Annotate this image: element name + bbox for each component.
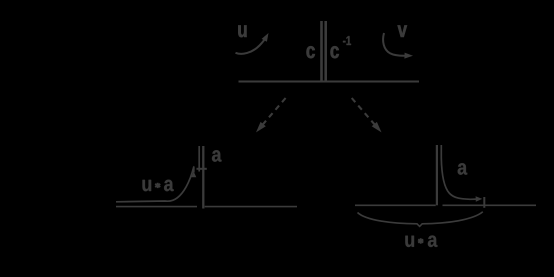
label c <box>307 46 315 58</box>
top horizontal line <box>239 81 420 83</box>
asterisk of u*a (bottom-right) <box>418 238 423 243</box>
curve u*a (bottom-right) <box>441 145 476 199</box>
dashed arrow left <box>262 98 286 126</box>
bottom-right horizontal line (right segment) <box>443 204 537 206</box>
curve c double vertical line (left bar) <box>320 21 323 81</box>
label u <box>238 25 246 37</box>
arrow v (curved) <box>383 33 406 56</box>
label a of u*a (bottom-right) <box>428 236 438 248</box>
curve u*a (bottom-left) <box>116 167 194 202</box>
arrowhead on curve u*a (bottom-left, pointing up) <box>191 172 196 178</box>
bottom-right horizontal line (left segment) <box>355 204 436 206</box>
asterisk of u*a (bottom-left) <box>155 183 160 188</box>
vertical stub at end of curve u*a (bottom-left) <box>193 167 195 173</box>
label c^-1 <box>331 46 339 58</box>
bottom-left horizontal line (left segment) <box>116 206 197 208</box>
brace arc under bottom-right figure <box>358 212 483 227</box>
dashed arrow right <box>352 98 376 126</box>
arrowhead on curve u*a (bottom-right, pointing right) <box>476 196 483 202</box>
tick mark across arc a (bottom-left) <box>197 168 207 170</box>
arrow u (curved) <box>236 37 267 54</box>
arrowhead of u arrow <box>262 33 269 42</box>
label a (bottom-right) <box>458 163 468 175</box>
arrowhead of v arrow <box>404 53 413 59</box>
curve c^-1 double vertical line (right bar) <box>324 21 327 81</box>
label a (bottom-left) <box>212 150 222 162</box>
label u of u*a (bottom-right) <box>405 236 414 247</box>
bottom-left horizontal line (right segment) <box>205 206 297 208</box>
label a of u*a (bottom-left) <box>164 180 174 192</box>
short end segment of curve u*a converging to a (bottom-left) <box>198 146 200 172</box>
label v <box>398 25 407 37</box>
superscript -1 of c^-1 <box>343 36 351 45</box>
label u of u*a (bottom-left) <box>143 180 152 191</box>
arrowhead of dashed arrow left <box>256 122 266 132</box>
arc a vertical line (bottom-right) <box>436 145 438 205</box>
arc a vertical line (bottom-left) <box>202 146 204 209</box>
tick mark across horizontal line (bottom-right) <box>483 197 485 208</box>
arrowhead of dashed arrow right <box>372 122 382 132</box>
